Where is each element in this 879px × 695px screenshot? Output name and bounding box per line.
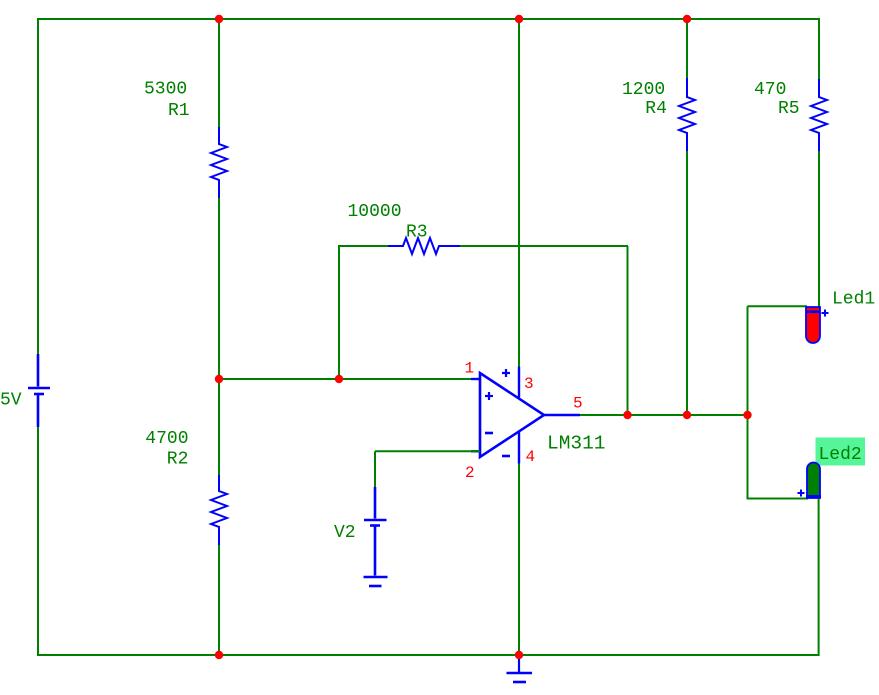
Led2 bar	[806, 495, 821, 499]
svg-text:R4: R4	[645, 99, 667, 119]
wire node A to op-amp pin 1	[219, 378, 480, 380]
op-amp input minus marker	[485, 432, 493, 435]
pin 3 stub	[518, 367, 520, 398]
junction dot bottom R2	[215, 651, 223, 659]
wire Led1 horizontal	[748, 305, 808, 307]
svg-text:R2: R2	[167, 450, 189, 470]
source V2	[364, 487, 387, 576]
junction dot bottom ground	[515, 651, 523, 659]
svg-text:470: 470	[754, 80, 786, 100]
svg-text:5300: 5300	[144, 80, 187, 100]
svg-text:1200: 1200	[622, 80, 665, 100]
battery V1 5V	[28, 354, 50, 427]
svg-text:V2: V2	[334, 523, 356, 543]
wire op-amp pin 3 power from top rail	[518, 19, 520, 367]
wire pin 4 to bottom rail	[518, 464, 520, 656]
LED Led1	[806, 307, 820, 343]
pin 4 minus marker	[502, 455, 510, 458]
wire top rail	[38, 18, 819, 20]
wire R2 to bottom rail	[218, 545, 220, 655]
svg-text:10000: 10000	[348, 202, 402, 222]
wire left rail upper (to battery)	[37, 18, 39, 354]
wire LED branch vertical upper	[747, 306, 749, 415]
svg-text:5: 5	[573, 395, 583, 413]
wire pin 2 to V2	[374, 451, 376, 487]
op-amp input plus marker	[485, 392, 493, 400]
svg-text:R3: R3	[406, 223, 428, 243]
ground main	[507, 658, 533, 682]
resistor R2	[211, 475, 227, 545]
wire op-amp pin 2 horizontal	[375, 450, 480, 452]
wire R4 to output	[686, 151, 688, 415]
pin 4 stub	[518, 432, 520, 464]
ground at V2	[364, 577, 388, 586]
junction dot top pin3	[515, 15, 523, 23]
svg-text:4: 4	[526, 448, 536, 466]
svg-text:R1: R1	[168, 101, 190, 121]
svg-text:Led2: Led2	[819, 445, 862, 465]
Led1 bar	[806, 311, 821, 314]
svg-text:1: 1	[465, 359, 475, 377]
wire R1 to node A	[218, 198, 220, 379]
Led2 plus marker	[798, 490, 805, 497]
svg-text:LM311: LM311	[547, 433, 606, 455]
Led2 highlight box	[816, 438, 866, 466]
wire R3 right vertical to output	[627, 246, 629, 415]
resistor R3	[388, 238, 460, 254]
wire R3 left horizontal	[338, 245, 389, 247]
svg-text:R5: R5	[778, 99, 800, 119]
svg-text:4700: 4700	[145, 429, 188, 449]
wire R3 left vertical	[338, 246, 340, 379]
Led1 plus marker	[822, 310, 829, 317]
wire LED branch vertical lower	[747, 415, 749, 500]
junction dot R3 left	[335, 375, 343, 383]
pin 2 stub	[471, 450, 481, 452]
wire Led2 horizontal	[748, 498, 809, 500]
wire R3 right horizontal	[460, 245, 628, 247]
wire left rail lower (battery to bottom)	[37, 427, 39, 656]
svg-text:3: 3	[524, 375, 534, 393]
junction dot R4 output	[683, 411, 691, 419]
junction dot top R1	[215, 15, 223, 23]
wire node A to R2	[218, 379, 220, 476]
op-amp U1 LM311 triangle	[480, 373, 544, 457]
wire R1 branch top	[218, 19, 220, 128]
wire right rail from top	[818, 18, 820, 80]
svg-text:5V: 5V	[0, 391, 22, 411]
junction dot LED branch	[743, 411, 751, 419]
pin 3 plus marker	[502, 369, 510, 377]
wire Led2 to bottom rail	[818, 499, 820, 657]
op-amp output pin 5 stub	[544, 414, 580, 416]
LED Led2	[807, 463, 820, 499]
wire output to LED branch	[580, 414, 748, 416]
wire R5 to Led1	[818, 151, 820, 307]
junction dot top R4	[683, 15, 691, 23]
resistor R5	[811, 79, 827, 151]
wire bottom rail	[38, 654, 819, 656]
svg-text:Led1: Led1	[832, 290, 875, 310]
svg-text:2: 2	[465, 464, 475, 482]
junction dot node A	[215, 375, 223, 383]
wire R4 branch from top rail	[686, 19, 688, 79]
junction dot R3 right output	[623, 411, 631, 419]
pin 1 stub	[471, 378, 481, 380]
resistor R4	[679, 78, 695, 151]
resistor R1	[211, 127, 227, 198]
